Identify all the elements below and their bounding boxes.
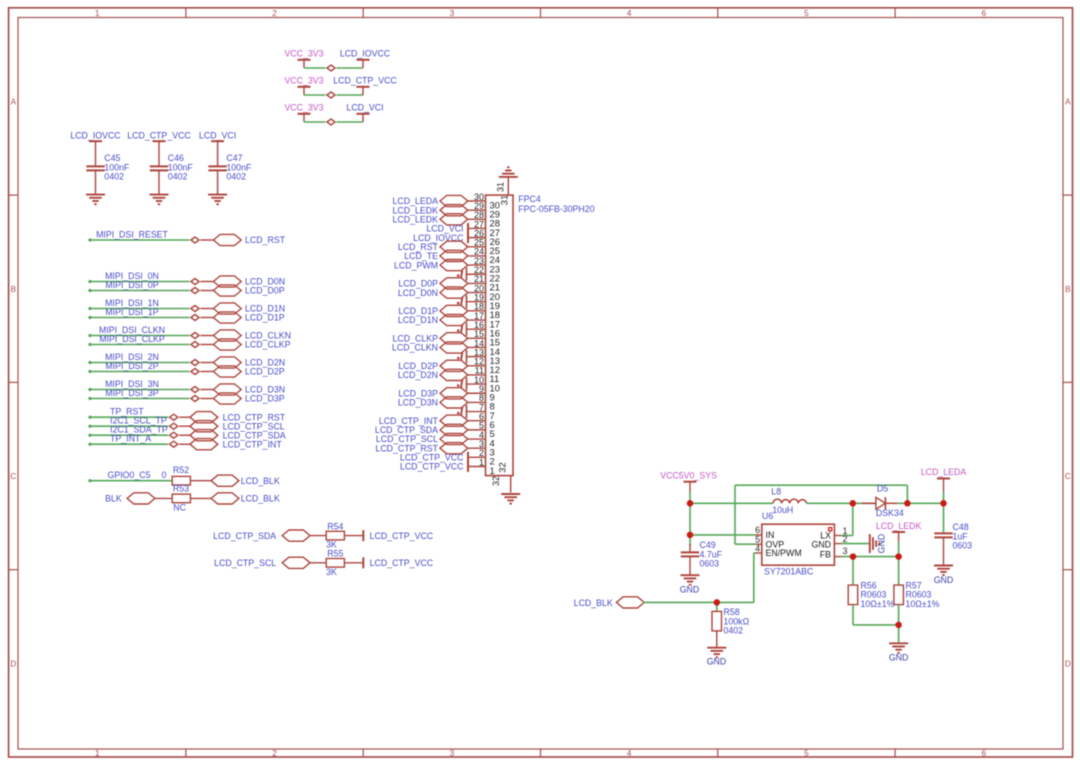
net tie diamond [327,119,335,125]
junction node at 690,534.9 [687,532,694,539]
svg-text:GND: GND [680,584,700,594]
svg-text:MIPI_DSI_2P: MIPI_DSI_2P [105,361,158,371]
power port LCD_LEDK [876,521,922,542]
power port VCC_3V3 [284,49,323,69]
svg-text:LCD_D3P: LCD_D3P [245,394,285,404]
svg-text:4: 4 [755,543,760,553]
wire FB node [841,556,899,558]
wire LX to inductor output node [841,503,853,535]
FPC4 pin 24 net LCD_TE [404,247,500,266]
wire MIPI_DSI_3P with net tie and off-page connector LCD_D3P [88,388,284,404]
svg-text:U6: U6 [762,511,773,521]
wire TP_RST with net tie and off-page connector LCD_CTP_RST [88,407,285,423]
svg-text:LCD_D1P: LCD_D1P [245,313,285,323]
ground at U6 GND pin [841,534,887,554]
FPC4 pin 28 net LCD_LEDK [393,210,500,229]
wire I2C1_SCL_TP with net tie and off-page connector LCD_CTP_SCL [88,416,284,432]
ground [150,195,169,205]
svg-text:LCD_D2P: LCD_D2P [245,367,285,377]
svg-text:2: 2 [843,534,848,544]
wire MIPI_DSI_CLKN with net tie and off-page connector LCD_CLKN [88,325,291,341]
svg-text:3: 3 [450,749,455,758]
svg-text:R52: R52 [173,465,189,475]
svg-text:C: C [10,472,16,481]
svg-text:LCD_D0N: LCD_D0N [398,288,438,298]
power port LCD_CTP_VCC [344,530,433,541]
wire MIPI_DSI_0N with net tie and off-page connector LCD_D0N [88,271,285,287]
svg-text:0603: 0603 [953,541,973,551]
svg-text:R55: R55 [327,549,343,559]
net tie diamond [327,65,335,71]
svg-text:1: 1 [95,9,100,18]
junction node at 716.8,602.4 [714,599,721,606]
resistor R52 0 ohm from GPIO0_C5 to LCD_BLK [88,465,280,486]
resistor R57 R0603 10 ohm [894,557,940,625]
resistor R55 3K pull-up from LCD_CTP_SCL to LCD_CTP_VCC [214,549,344,577]
svg-text:D: D [1065,659,1071,668]
svg-text:1: 1 [490,465,495,476]
wire LCD_BLK to EN/PWM [643,553,755,602]
svg-text:VCC_3V3: VCC_3V3 [284,49,323,59]
svg-text:LCD_CTP_INT: LCD_CTP_INT [223,439,283,449]
svg-text:31: 31 [495,182,505,192]
svg-text:32: 32 [491,476,501,486]
inductor L8 10uH [771,486,806,515]
svg-text:GND: GND [934,575,954,585]
svg-text:MIPI_DSI_RESET: MIPI_DSI_RESET [96,229,168,239]
wire TP_INT_A with net tie and off-page connector LCD_CTP_INT [88,434,282,450]
svg-text:3K: 3K [326,567,337,577]
svg-text:LCD_IOVCC: LCD_IOVCC [70,130,121,140]
FPC4 pin 7 no-connect [457,402,495,421]
svg-text:10uH: 10uH [772,505,793,515]
power port LCD_VCI [346,103,383,123]
svg-text:5: 5 [804,9,809,18]
svg-text:A: A [1065,97,1071,106]
wire MIPI_DSI_1P with net tie and off-page connector LCD_D1P [88,307,284,323]
svg-text:R54: R54 [327,521,343,531]
FPC4 pin 31 shield to ground [495,167,518,205]
power port LCD_VCI [199,130,236,141]
svg-text:MIPI_DSI_CLKP: MIPI_DSI_CLKP [99,334,165,344]
capacitor C48 1uF 0603 [934,522,972,585]
FPC4 pin 25 net LCD_RST [398,238,500,257]
wire MIPI_DSI_2N with net tie and off-page connector LCD_D2N [88,352,285,368]
svg-text:LCD_CTP_SCL: LCD_CTP_SCL [214,558,276,568]
FPC4 pin 12 net LCD_D2P [398,357,500,376]
svg-text:GND: GND [889,653,909,663]
svg-text:4: 4 [627,749,632,758]
svg-text:0402: 0402 [724,626,744,636]
svg-text:LCD_D3N: LCD_D3N [398,398,438,408]
junction node at 898.6,624.9 [895,622,902,629]
wire VIN to IN pin [690,534,756,536]
svg-text:C: C [1065,472,1071,481]
FPC4 pin 4 net LCD_CTP_SCL [376,430,495,449]
svg-text:1: 1 [95,749,100,758]
svg-text:31: 31 [499,195,510,205]
svg-text:L8: L8 [771,486,781,496]
wire bottom of R56/R57 to ground [853,625,908,663]
junction node at 852.8,503.3 [850,500,857,507]
wire I2C1_SDA_TP with net tie and off-page connector LCD_CTP_SDA [88,425,285,441]
wire MIPI_DSI_1N with net tie and off-page connector LCD_D1N [88,298,285,314]
svg-text:GND: GND [877,534,887,554]
power port VCC_3V3 [284,103,323,123]
diode D5 DSK34 [862,484,904,519]
svg-text:GPIO0_C5: GPIO0_C5 [107,470,150,480]
FPC4 pin 27 power port LCD_VCI [426,219,500,238]
svg-text:MIPI_DSI_3P: MIPI_DSI_3P [105,388,158,398]
svg-text:GND: GND [707,657,727,667]
svg-text:VCC_3V3: VCC_3V3 [284,76,323,86]
svg-text:EN/PWM: EN/PWM [766,548,802,558]
FPC4 pin 15 net LCD_CLKP [393,329,500,348]
ground [86,195,105,205]
wire MIPI_DSI_RESET with net tie and off-page connector LCD_RST [88,229,285,245]
svg-text:10Ω±1%: 10Ω±1% [906,599,940,609]
svg-text:VCC_3V3: VCC_3V3 [284,103,323,113]
svg-text:A: A [11,97,17,106]
wire LCD_LEDA to C48 [943,492,945,533]
power port VCC5V0_SYS [660,471,717,492]
svg-text:4: 4 [627,9,632,18]
svg-text:NC: NC [173,503,186,513]
FPC4 pin 20 net LCD_D0N [398,283,500,302]
svg-text:MIPI_DSI_1P: MIPI_DSI_1P [105,307,158,317]
svg-text:LCD_CTP_VCC: LCD_CTP_VCC [370,531,434,541]
power port VCC_3V3 [284,76,323,96]
FPC4 pin 14 net LCD_CLKN [392,338,500,357]
svg-text:LCD_CTP_VCC: LCD_CTP_VCC [333,76,397,86]
svg-text:6: 6 [981,749,986,758]
FPC4 pin 6 net LCD_CTP_INT [379,412,495,431]
capacitor C47 100nF 0402 [208,141,252,194]
resistor R58 100k 0402 [707,602,750,666]
svg-text:LCD_CTP_VCC: LCD_CTP_VCC [400,462,464,472]
svg-text:1: 1 [479,457,484,467]
FPC4 pin 23 net LCD_PWM [394,256,500,275]
svg-text:LCD_CLKP: LCD_CLKP [245,340,291,350]
svg-text:B: B [11,285,17,294]
U6 pin 6 IN [755,525,762,535]
junction node at 853,556.6 [850,553,857,560]
svg-text:LCD_VCI: LCD_VCI [199,130,236,140]
FPC4 pin 29 net LCD_LEDK [393,201,500,220]
FPC4 pin 32 shield to ground [491,462,520,503]
svg-text:D5: D5 [877,484,888,494]
FPC4 pin 1 power port LCD_CTP_VCC [400,457,495,476]
svg-text:BLK: BLK [105,494,122,504]
svg-text:SY7201ABC: SY7201ABC [764,567,814,577]
wire [304,67,363,69]
power port LCD_IOVCC [340,49,391,69]
svg-text:LCD_BLK: LCD_BLK [241,476,280,486]
wire VIN to inductor [690,502,773,504]
svg-text:32: 32 [497,462,508,472]
svg-text:TP_INT_A: TP_INT_A [110,434,151,444]
svg-text:0603: 0603 [700,559,720,569]
junction node at 943.5,503.3 [940,500,947,507]
svg-text:0: 0 [162,470,167,480]
svg-text:MIPI_DSI_0P: MIPI_DSI_0P [105,280,158,290]
wire MIPI_DSI_2P with net tie and off-page connector LCD_D2P [88,361,284,377]
FPC4 pin 8 net LCD_D3N [398,393,495,412]
svg-text:LCD_BLK: LCD_BLK [574,598,613,608]
svg-text:VCC5V0_SYS: VCC5V0_SYS [660,471,717,481]
svg-text:DSK34: DSK34 [876,508,904,518]
junction node at 690,503.3 [687,500,694,507]
FPC4 pin 17 net LCD_D1N [398,311,500,330]
svg-text:LCD_CLKN: LCD_CLKN [392,343,438,353]
svg-text:10Ω±1%: 10Ω±1% [861,599,895,609]
svg-text:LCD_D0P: LCD_D0P [245,286,285,296]
power port LCD_CTP_VCC [333,76,397,96]
svg-text:2: 2 [272,749,277,758]
FPC4 pin 3 net LCD_CTP_RST [375,439,494,458]
svg-text:FPC-05FB-30PH20: FPC-05FB-30PH20 [518,204,594,214]
FPC4 pin 22 no-connect [457,265,500,284]
capacitor C49 4.7uF 0603 [680,540,723,594]
svg-text:LCD_IOVCC: LCD_IOVCC [340,49,391,59]
wire [304,94,363,96]
IC U6 SY7201ABC [762,511,835,577]
svg-text:3: 3 [843,546,848,556]
FPC4 pin 19 no-connect [457,293,500,312]
ground [208,195,227,205]
U6 pin 4 EN/PWM [755,543,762,553]
FPC4 pin 5 net LCD_CTP_SDA [375,421,495,440]
connector FPC4 FPC-05FB-30PH20 body [486,194,595,475]
wire diode cathode to output node [898,502,944,504]
svg-text:LCD_LEDK: LCD_LEDK [876,521,922,531]
power port LCD_CTP_VCC [127,130,191,141]
power port LCD_LEDA [921,467,967,492]
svg-text:R53: R53 [173,483,189,493]
svg-text:FB: FB [820,550,831,560]
U6 pin 3 FB [834,546,847,557]
net tie diamond [327,92,335,98]
capacitor C46 100nF 0402 [150,141,194,194]
svg-text:FPC4: FPC4 [518,194,541,204]
svg-text:5: 5 [804,749,809,758]
capacitor C45 100nF 0402 [86,141,130,194]
svg-text:B: B [1065,285,1071,294]
FPC4 pin 21 net LCD_D0P [398,274,500,293]
svg-text:LCD_D1N: LCD_D1N [398,315,438,325]
wire LCD_LEDK to FB node [898,542,900,557]
svg-text:0402: 0402 [104,172,124,182]
wire MIPI_DSI_0P with net tie and off-page connector LCD_D0P [88,280,284,296]
U6 pin 2 GND [834,534,847,544]
svg-text:3: 3 [450,9,455,18]
resistor R54 3K pull-up from LCD_CTP_SDA to LCD_CTP_VCC [213,521,344,549]
FPC4 pin 18 net LCD_D1P [398,302,500,321]
FPC4 pin 26 power port LCD_IOVCC [413,228,500,247]
svg-text:D: D [10,659,16,668]
U6 pin 5 OVP [755,535,762,545]
svg-text:2: 2 [272,9,277,18]
FPC4 pin 10 no-connect [457,375,500,394]
svg-text:0402: 0402 [226,172,246,182]
svg-text:LCD_LEDA: LCD_LEDA [921,467,967,477]
FPC4 pin 16 no-connect [457,320,500,339]
svg-text:LCD_CTP_VCC: LCD_CTP_VCC [127,130,191,140]
wire OVP to output top loop [735,485,907,544]
svg-text:LCD_CTP_VCC: LCD_CTP_VCC [370,558,434,568]
svg-text:LCD_BLK: LCD_BLK [241,494,280,504]
wire MIPI_DSI_CLKP with net tie and off-page connector LCD_CLKP [88,334,290,350]
resistor R56 R0603 10 ohm [848,557,894,625]
svg-text:LCD_PWM: LCD_PWM [394,260,438,270]
svg-text:LCD_RST: LCD_RST [245,235,286,245]
power port LCD_CTP_VCC [344,557,433,568]
U6 pin 1 LX [834,526,847,536]
FPC4 pin 30 net LCD_LEDA [393,192,500,211]
wire [304,121,363,123]
FPC4 pin 9 net LCD_D3P [398,384,494,403]
wire inductor to diode anode [807,502,876,504]
svg-text:LCD_D2N: LCD_D2N [398,370,438,380]
resistor R53 NC from BLK to LCD_BLK [105,483,280,512]
junction node at 898.6,556.6 [895,553,902,560]
FPC4 pin 2 power port LCD_CTP_VCC [400,448,495,467]
svg-text:LCD_CTP_SDA: LCD_CTP_SDA [213,531,276,541]
FPC4 pin 13 no-connect [457,347,500,366]
wire VCC5V0_SYS vertical to C49 and IN [689,492,691,546]
svg-text:0402: 0402 [168,172,188,182]
FPC4 pin 11 net LCD_D2N [398,366,499,385]
junction node at 907.4,503.3 [904,500,911,507]
wire MIPI_DSI_3N with net tie and off-page connector LCD_D3N [88,379,285,395]
off-page connector LCD_BLK [574,597,645,608]
svg-text:GND: GND [811,539,831,549]
svg-text:LCD_VCI: LCD_VCI [346,103,383,113]
svg-text:6: 6 [981,9,986,18]
power port LCD_IOVCC [70,130,121,141]
